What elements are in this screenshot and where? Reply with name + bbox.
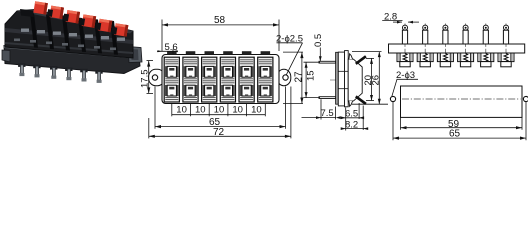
black knob tops between buttons [20, 9, 117, 35]
dim 15 [304, 61, 321, 63]
svg-text:10: 10 [232, 105, 243, 116]
dim 72 line [149, 135, 291, 137]
mounting ear right [277, 69, 291, 85]
ear hole left [152, 75, 157, 80]
red push buttons [33, 1, 128, 36]
mounting ear left [149, 69, 165, 85]
pin/terminal 6 [498, 24, 514, 68]
terminal cell 1 [164, 57, 179, 102]
dim 8.2 [362, 106, 364, 131]
dim 65 extension lines [154, 87, 156, 129]
body top face [17, 10, 133, 34]
svg-text:0.5: 0.5 [313, 34, 324, 47]
dim 7.5 [320, 99, 322, 119]
top spring hook [349, 54, 353, 59]
svg-text:10: 10 [214, 105, 225, 116]
terminal cell 5 [239, 57, 254, 102]
svg-text:27: 27 [293, 71, 304, 83]
lug slots [338, 70, 348, 72]
svg-text:15: 15 [306, 70, 317, 81]
leader 2-phi2.5 [277, 43, 303, 75]
ear hole left [390, 96, 395, 101]
housing body [348, 59, 362, 101]
dim 58 extension lines [161, 20, 163, 52]
dim 2.8 [382, 21, 419, 23]
housing front wall [345, 51, 349, 107]
svg-text:2.8: 2.8 [384, 11, 397, 22]
svg-text:10: 10 [251, 105, 262, 116]
dim 58 line [162, 24, 279, 26]
svg-text:10: 10 [176, 105, 187, 116]
dim 59 line [401, 127, 523, 129]
pin/terminal 1 [397, 24, 413, 68]
terminal cell 3 [202, 57, 217, 102]
dim 26 [352, 51, 382, 53]
svg-text:6.5: 6.5 [345, 109, 358, 120]
flange outline [401, 86, 523, 117]
spacer plate [338, 52, 344, 106]
flange top highlight [4, 46, 139, 60]
left end low tab [2, 50, 10, 62]
svg-text:58: 58 [214, 15, 226, 26]
pin/terminal 4 [458, 24, 474, 68]
dim 6.5 [345, 108, 347, 131]
pin/terminal 5 [478, 24, 494, 68]
dim 59 ext [400, 117, 402, 129]
mounting bar [389, 44, 525, 53]
flange plate (shaded) [336, 52, 339, 104]
bottom spring hook [349, 101, 353, 106]
terminal cell 6 [258, 57, 273, 102]
mid glints (metal clips) [21, 29, 125, 41]
cell division shadows [30, 13, 118, 55]
dim 72 extension lines [148, 118, 150, 138]
pin/terminal 2 [417, 24, 433, 68]
dim 65 ext [392, 102, 394, 141]
solder pins [18, 63, 103, 82]
svg-text:65: 65 [449, 129, 461, 140]
svg-text:72: 72 [213, 127, 225, 138]
dim 20 [366, 57, 374, 59]
svg-text:7.5: 7.5 [321, 108, 334, 119]
leader 2-phi3 [392, 79, 418, 96]
flange right end cap [128, 47, 142, 63]
svg-text:2-ϕ3: 2-ϕ3 [396, 70, 415, 81]
flange base plate [4, 46, 140, 74]
svg-text:26: 26 [370, 75, 381, 86]
bottom solder lug [319, 97, 336, 99]
terminal cell 4 [220, 57, 235, 102]
pin/terminal 3 [437, 24, 453, 68]
svg-text:8.2: 8.2 [345, 120, 358, 131]
center line [330, 79, 363, 81]
center line [402, 98, 521, 100]
dim 0.5 leader [319, 48, 321, 62]
top button paddle [356, 56, 366, 64]
dim 27 extension + line (front height) [283, 51, 303, 53]
dim 65 line [155, 126, 286, 128]
terminal cell 2 [183, 57, 198, 102]
svg-text:2-ϕ2.5: 2-ϕ2.5 [276, 34, 303, 45]
bottom button paddle [356, 96, 366, 104]
svg-text:5.6: 5.6 [165, 42, 178, 53]
dim texts 10 [176, 105, 261, 116]
body block [5, 10, 133, 59]
top solder lug [319, 61, 336, 63]
body outline [162, 55, 279, 104]
dim 65 line [393, 137, 526, 139]
dim 10 line [172, 114, 265, 116]
svg-text:17.5: 17.5 [140, 70, 151, 89]
svg-text:10: 10 [195, 105, 206, 116]
ear hole right [523, 96, 528, 101]
top tabs [167, 51, 270, 54]
dim 17.5 [147, 60, 154, 62]
front face streaks [5, 28, 133, 44]
dim 5.6 line [157, 50, 178, 52]
ear hole right [283, 75, 288, 80]
dim 10 ticks [171, 104, 173, 117]
